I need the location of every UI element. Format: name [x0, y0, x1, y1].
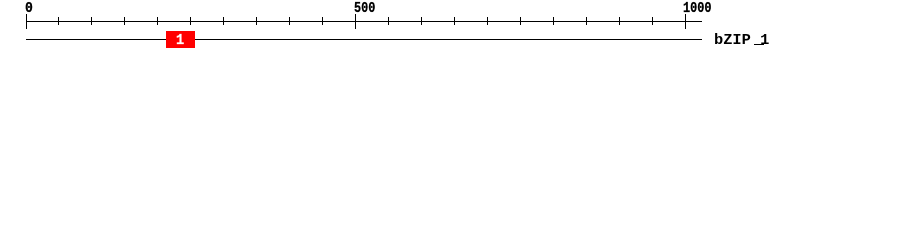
ruler minor tick at 400	[289, 17, 290, 25]
ruler minor tick at 150	[124, 17, 125, 25]
ruler major tick at 500	[355, 14, 356, 29]
ruler minor tick at 450	[322, 17, 323, 25]
protein sequence line	[26, 39, 702, 40]
domain box number label 1 (white)	[176, 36, 184, 45]
ruler major tick at 0	[26, 14, 27, 29]
ruler minor tick at 950	[652, 17, 653, 25]
ruler scale label 500	[354, 4, 375, 13]
ruler axis line (0 to end of sequence)	[26, 21, 702, 22]
ruler minor tick at 850	[586, 17, 587, 25]
ruler major tick at 1000	[685, 14, 686, 29]
domain box 1 (red rectangle on sequence line)	[166, 31, 195, 48]
ruler minor tick at 100	[91, 17, 92, 25]
ruler scale label 1000	[683, 4, 711, 13]
ruler minor tick at 550	[388, 17, 389, 25]
ruler minor tick at 700	[487, 17, 488, 25]
sequence name underscore glyph of bZIP_1	[754, 44, 764, 45]
ruler minor tick at 50	[58, 17, 59, 25]
ruler minor tick at 600	[421, 17, 422, 25]
ruler minor tick at 250	[190, 17, 191, 25]
ruler minor tick at 300	[223, 17, 224, 25]
ruler minor tick at 750	[520, 17, 521, 25]
ruler minor tick at 650	[454, 17, 455, 25]
ruler minor tick at 900	[619, 17, 620, 25]
sequence name label bZIP_1	[714, 36, 769, 45]
ruler scale label 0	[25, 4, 33, 13]
ruler minor tick at 200	[157, 17, 158, 25]
ruler minor tick at 800	[553, 17, 554, 25]
ruler minor tick at 350	[256, 17, 257, 25]
